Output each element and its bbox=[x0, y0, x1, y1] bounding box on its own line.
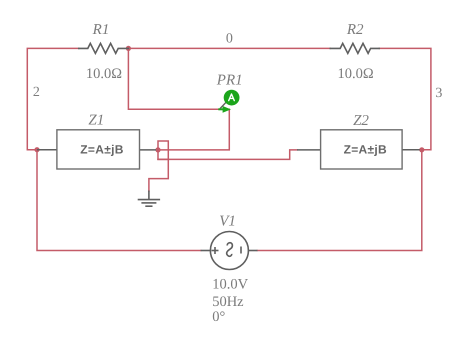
svg-text:0°: 0° bbox=[212, 309, 225, 325]
svg-text:R1: R1 bbox=[92, 22, 110, 38]
wire net 0: top rail between R1 and R2 bbox=[128, 47, 330, 49]
junction dot: net 0 at R1 right pin bbox=[126, 46, 131, 51]
svg-text:Z=A±jB: Z=A±jB bbox=[80, 143, 123, 157]
junction dot: net 2 at Z1 left pin bbox=[34, 147, 39, 152]
svg-text:Z=A±jB: Z=A±jB bbox=[344, 143, 387, 157]
svg-text:50Hz: 50Hz bbox=[212, 294, 244, 310]
AC source V1 bbox=[201, 232, 258, 270]
wire net 2: top-left rail from R1 left pin down to Z1 left junction bbox=[27, 48, 79, 149]
svg-text:0: 0 bbox=[226, 32, 233, 47]
ground bbox=[138, 191, 160, 207]
svg-text:10.0Ω: 10.0Ω bbox=[86, 66, 122, 82]
impedance block Z2 bbox=[297, 130, 420, 169]
resistor R2 bbox=[330, 43, 379, 53]
current probe PR1 bbox=[218, 90, 239, 113]
impedance block Z1 bbox=[37, 130, 156, 169]
svg-text:PR1: PR1 bbox=[216, 72, 243, 88]
svg-text:Z2: Z2 bbox=[353, 113, 369, 129]
svg-text:10.0Ω: 10.0Ω bbox=[338, 66, 374, 82]
resistor R1 bbox=[79, 43, 129, 53]
svg-text:2: 2 bbox=[33, 85, 40, 100]
svg-text:Z1: Z1 bbox=[88, 112, 104, 128]
wire net 0: from PR1 corner down to Z1 right pin bbox=[158, 109, 229, 150]
junction dot: net 3 at Z2 right pin bbox=[419, 147, 424, 152]
svg-text:R2: R2 bbox=[346, 22, 364, 38]
junction dot: net 0 at Z1 right pin bbox=[155, 147, 160, 152]
svg-text:V1: V1 bbox=[219, 214, 236, 230]
wire net 2: left rail from Z1 left junction down to V1 left lead bbox=[37, 150, 201, 251]
svg-text:10.0V: 10.0V bbox=[212, 276, 248, 292]
wire net 3: from Z2 right junction down to V1 right lead bbox=[258, 150, 422, 251]
svg-text:3: 3 bbox=[435, 86, 442, 101]
wire net 3: from R2 right pin down to Z2 right junction bbox=[379, 48, 431, 149]
wire net 0: drop from R1 junction down then right to PR1 corner bbox=[128, 48, 229, 109]
wire net 0: ground branch from loop bbox=[149, 159, 168, 191]
wire net 0: routing loop at Z1 right pin bbox=[158, 141, 168, 159]
wire net 0: bypass run from loop to Z2 left pin bbox=[158, 150, 297, 160]
